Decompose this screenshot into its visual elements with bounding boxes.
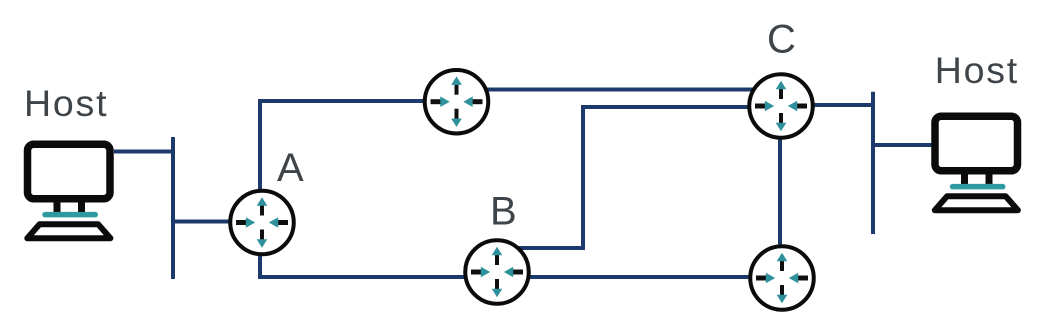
svg-text:Host: Host [24,82,108,124]
svg-text:A: A [277,146,304,190]
svg-text:C: C [767,18,796,62]
svg-text:B: B [490,189,517,233]
svg-text:Host: Host [935,49,1019,91]
